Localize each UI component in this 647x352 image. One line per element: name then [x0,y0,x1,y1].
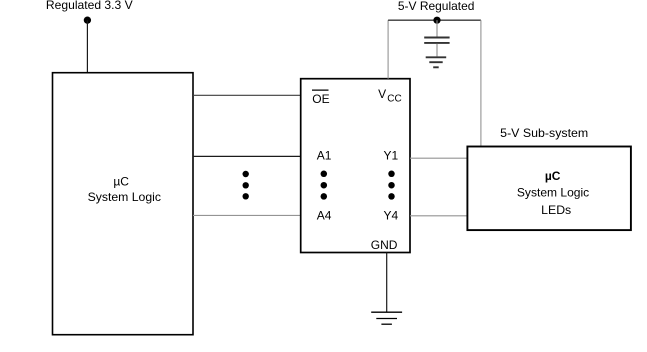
ellipsis dots inside U1 left [321,171,328,200]
svg-text:A1: A1 [317,148,332,162]
5-V Sub-system block (right) [467,147,631,231]
svg-text:Regulated 3.3 V: Regulated 3.3 V [46,0,133,12]
ground (U1 GND) [371,312,402,324]
ellipsis dots inside U1 right [388,171,395,200]
svg-text:LEDs: LEDs [541,203,571,217]
wire A4 [193,214,301,216]
svg-text:µC: µC [113,175,129,189]
ground (capacitor) [426,57,447,67]
wire GND stub [386,253,388,312]
node 3.3V dot [84,17,91,24]
buffer U1 box [301,79,410,253]
wire VCC vertical [387,20,389,78]
node 5V dot [433,17,440,24]
wire Y1 [410,157,467,159]
ellipsis dots between blocks [243,171,249,200]
svg-text:5-V Sub-system: 5-V Sub-system [500,126,588,140]
svg-text:V: V [378,87,386,101]
wire OE [193,94,301,96]
pin label VCC [378,87,402,105]
svg-text:A4: A4 [317,209,332,223]
svg-text:Y4: Y4 [384,209,399,223]
svg-text:System Logic: System Logic [88,190,161,204]
svg-text:CC: CC [387,94,401,105]
svg-text:Y1: Y1 [384,148,399,162]
pin label OE [312,90,330,106]
µC System Logic block (left) [53,73,194,335]
wire A1 [193,155,301,157]
svg-text:OE: OE [312,92,329,106]
svg-text:µC: µC [545,169,561,183]
wire 3.3V to left block [86,20,88,72]
capacitor C1 [424,20,449,56]
svg-text:System Logic: System Logic [517,186,589,200]
svg-text:5-V Regulated: 5-V Regulated [398,0,475,13]
wire Y4 [410,215,467,217]
svg-text:GND: GND [371,238,398,252]
wire 5V right vertical to sub-system [480,20,482,146]
wire 5V top horizontal [388,19,481,21]
